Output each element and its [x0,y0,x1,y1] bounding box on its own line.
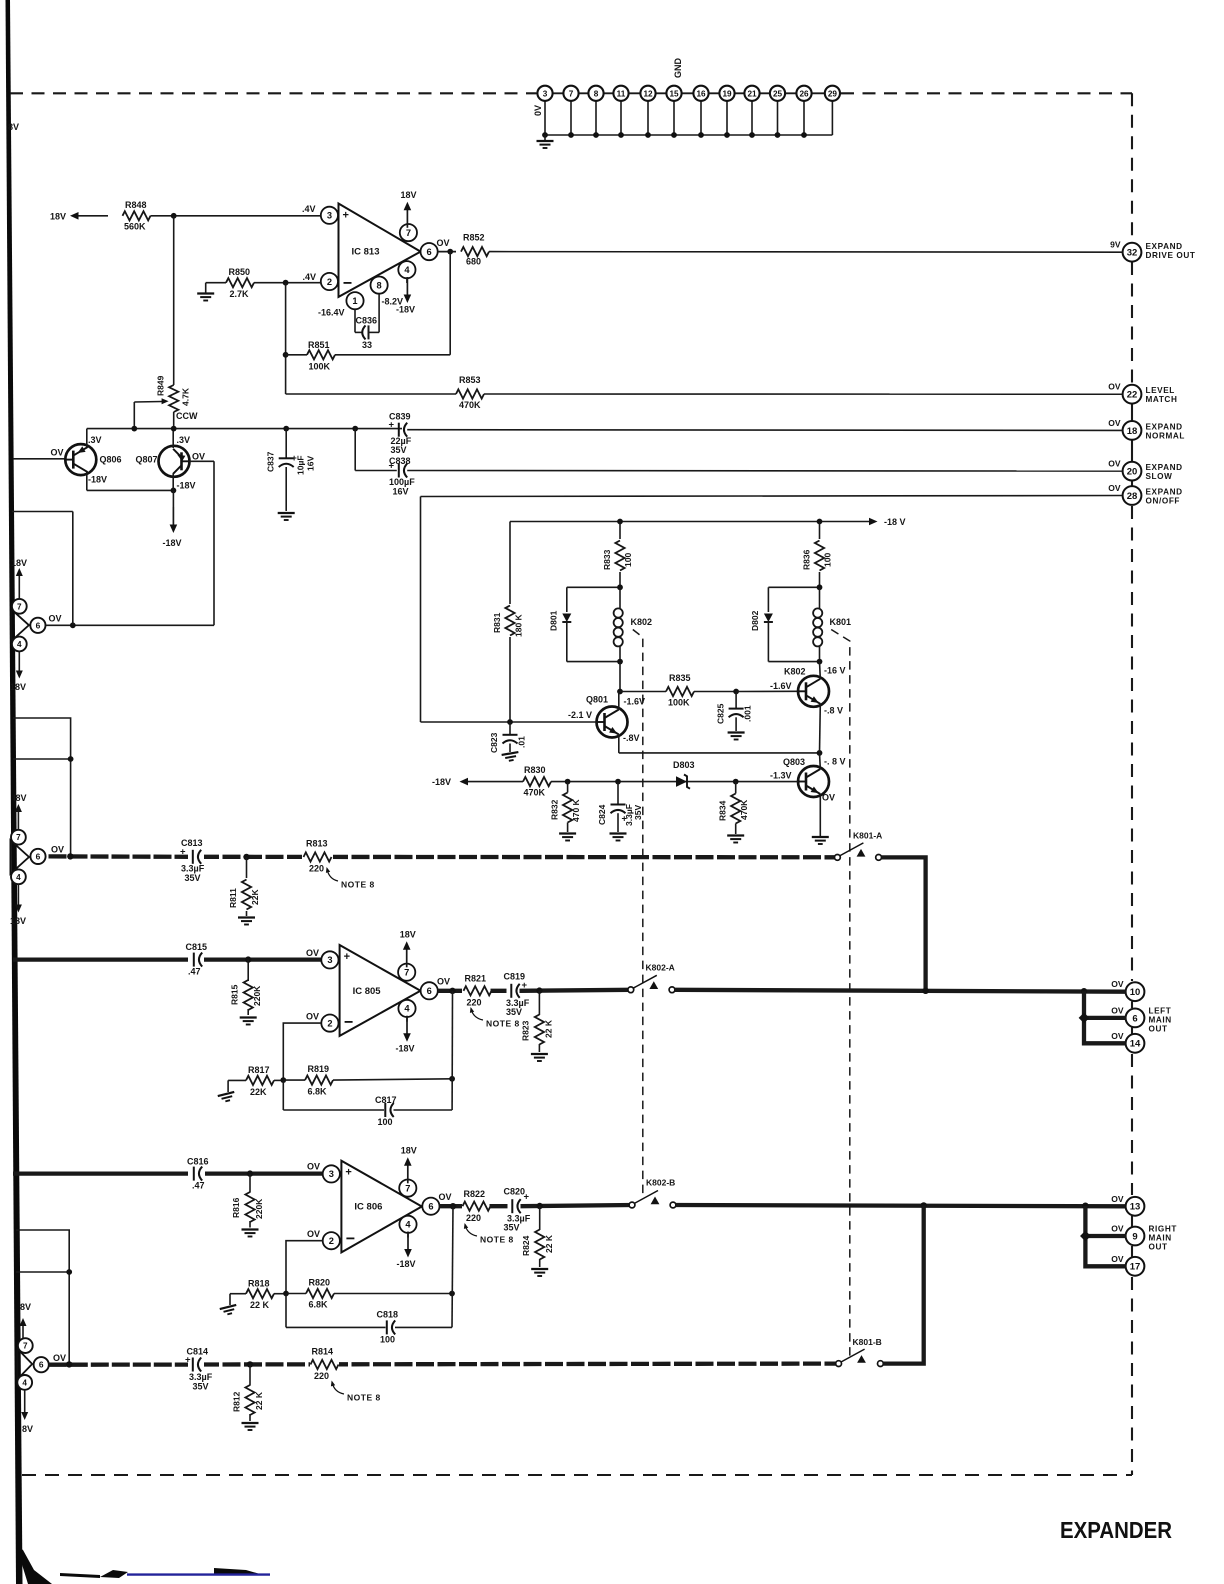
ground for C825 [728,733,745,740]
bold input wire left main [13,957,321,961]
svg-text:18V: 18V [11,558,27,568]
svg-text:+: + [344,951,350,963]
Q807 base wire to 0V node [189,460,215,462]
svg-text:16V: 16V [393,487,409,497]
svg-text:LEVEL: LEVEL [1146,386,1175,395]
svg-text:GND: GND [673,58,683,79]
wire to R853 level match [286,393,456,395]
svg-text:OV: OV [307,1162,320,1172]
pin 6 of IC806 output [422,1198,439,1215]
resistor R848 560K [123,211,151,220]
wire R853 to pin 22 [484,393,1122,395]
bold wire R821 to C819 [491,989,509,993]
note 8 leader for R814 [332,1382,344,1394]
bold wire C819 to contact [520,990,631,991]
ground for R823 [531,1054,548,1061]
resistor R818 22K [230,1293,246,1295]
resistor R852 680 [461,247,489,256]
svg-text:NORMAL: NORMAL [1146,431,1186,440]
18V arrow above triangle 3 [22,1326,24,1338]
pin 12 drop wire [647,101,649,135]
svg-text:18V: 18V [10,682,26,692]
svg-text:9: 9 [1132,1231,1137,1242]
svg-text:R815: R815 [230,984,240,1005]
svg-text:22: 22 [1127,390,1138,401]
svg-text:7: 7 [404,968,409,978]
connector pin 9 [1126,1227,1145,1246]
wire R848 to pin3 of IC813 [151,215,321,217]
svg-text:470 K: 470 K [571,798,581,822]
svg-text:R832: R832 [550,799,560,820]
wire pin6 to junction [46,624,73,626]
svg-text:13: 13 [1130,1202,1141,1213]
svg-text:C820: C820 [504,1187,526,1197]
K802 actuation dashed line [633,630,643,1197]
svg-text:R812: R812 [232,1391,242,1412]
svg-text:OV: OV [1108,418,1121,428]
svg-text:I8V: I8V [13,793,27,803]
svg-text:C837: C837 [266,451,276,472]
svg-text:11: 11 [617,89,626,98]
connector pin 19 [719,86,734,101]
note 8 leader for R822 [465,1225,477,1237]
Q803 emitter to ground [819,794,821,836]
svg-text:8V: 8V [22,1424,33,1434]
pin chain wire [536,92,841,94]
pin 11 drop wire [620,101,622,135]
resistor R831 180K [505,606,514,636]
svg-text:.47: .47 [188,967,201,977]
pin 25 drop wire [777,101,779,135]
capacitor C813 3.3uF 35V [188,849,204,865]
svg-text:100K: 100K [668,698,690,708]
transistor Q807 [159,446,190,477]
svg-text:220: 220 [466,1213,481,1223]
pin 8 of IC813 [371,277,388,294]
svg-text:4: 4 [22,1378,27,1387]
svg-text:26: 26 [799,89,809,98]
svg-text:-18V: -18V [163,538,182,548]
svg-text:+: + [389,460,395,471]
svg-text:OV: OV [51,845,64,855]
svg-text:470K: 470K [459,400,481,410]
svg-text:MATCH: MATCH [1146,395,1178,404]
feedback wire pin2 IC806 [286,1241,323,1294]
svg-text:LEFT: LEFT [1149,1006,1172,1015]
note 8 leader for R821 [471,1009,483,1021]
svg-text:C815: C815 [186,942,208,952]
svg-text:R835: R835 [669,673,691,683]
svg-text:OV: OV [1111,979,1124,989]
svg-text:4: 4 [16,873,21,882]
svg-text:2: 2 [327,277,332,287]
ground for R834 [727,836,744,843]
svg-text:IC 813: IC 813 [352,247,380,258]
Q802 emitter wire [819,704,822,753]
svg-text:+: + [389,419,395,430]
svg-text:180 K: 180 K [514,613,524,637]
connector pin 17 [1126,1257,1145,1276]
svg-text:470K: 470K [524,788,546,798]
svg-text:.4V: .4V [303,272,317,282]
svg-text:IC 805: IC 805 [353,986,382,997]
svg-text:18V: 18V [400,930,416,940]
svg-text:-. 8 V: -. 8 V [824,757,846,767]
bold branch wires to pins 9 and 17 [1085,1206,1126,1267]
svg-text:OV: OV [1108,459,1121,469]
svg-text:4.7K: 4.7K [181,387,191,406]
svg-text:Q806: Q806 [100,455,122,465]
svg-text:6: 6 [428,1202,433,1212]
svg-text:-1.6V: -1.6V [770,681,792,691]
svg-text:R823: R823 [521,1020,531,1041]
pin 1 of IC813 [346,292,363,309]
bold wire contact to pin 13 [676,1205,1126,1206]
pin 21 drop wire [751,101,753,135]
-18V arrow below Q807 [172,490,174,507]
svg-text:OV: OV [822,793,835,803]
svg-text:8: 8 [594,89,599,98]
svg-text:6.8K: 6.8K [308,1086,328,1096]
svg-text:6: 6 [427,247,432,257]
connector pin 15 [666,86,681,101]
resistor R851 100K [286,354,307,356]
svg-text:CCW: CCW [176,411,198,421]
svg-text:Q803: Q803 [783,757,805,767]
svg-text:1: 1 [352,296,357,306]
svg-text:12: 12 [643,89,653,98]
svg-text:NOTE 8: NOTE 8 [480,1235,514,1245]
svg-text:-18V: -18V [397,1259,416,1269]
-18V arrow below triangle 2 [17,884,19,905]
capacitor C819 3.3uF 35V [507,983,523,999]
wire C838 to pin 20 expand slow [407,470,1122,473]
resistor R822 220 [462,1199,490,1214]
svg-text:R813: R813 [306,839,328,849]
capacitor C838 100uF 16V [398,464,400,478]
svg-text:680: 680 [466,257,481,267]
svg-text:R853: R853 [459,375,481,385]
left connector triangle 3 pins 7 6 4 [17,1349,32,1380]
resistor R823 22K [538,991,540,1015]
svg-text:0V: 0V [533,105,543,116]
feedback vertical from output IC805 [451,991,453,1110]
resistor R853 470K [456,389,484,398]
pin 19 drop wire [726,101,728,135]
svg-text:18V: 18V [401,190,417,200]
svg-text:4: 4 [405,1220,411,1230]
svg-text:R817: R817 [248,1065,270,1075]
svg-text:OV: OV [49,614,62,624]
pin 4 of IC806 with -18V [399,1216,416,1233]
ground for C824 [610,834,627,841]
svg-text:100: 100 [823,553,833,567]
stub rectangle upper [13,718,71,856]
transistor Q802 [798,676,829,707]
resistor R821 220 [462,983,490,998]
connector pin 32 [1123,243,1142,262]
relay contact K801-B [841,1349,865,1362]
svg-text:-8.2V: -8.2V [382,297,404,307]
stub wire upper left [12,511,73,513]
svg-text:K801-B: K801-B [853,1337,882,1347]
connector pin 22 [1123,385,1142,404]
svg-text:MAIN: MAIN [1149,1234,1172,1243]
pin 7 of IC813 with 18V [407,224,409,233]
svg-text:100µF: 100µF [389,477,415,487]
svg-text:.01: .01 [517,736,527,748]
bold branch wires to pins 6 and 14 [1084,991,1126,1043]
svg-text:EXPAND: EXPAND [1146,488,1183,497]
left connector triangle 1 pins 7 6 4 [11,609,29,641]
svg-text:R814: R814 [312,1347,334,1357]
feedback vertical wire [285,283,287,394]
svg-text:D801: D801 [549,610,559,631]
resistor R833 100 [619,522,621,540]
svg-text:35V: 35V [391,445,407,455]
svg-text:35V: 35V [504,1223,520,1233]
svg-text:OUT: OUT [1149,1024,1168,1033]
relay coil K801 [817,584,823,590]
svg-text:4: 4 [404,1004,410,1014]
connector pin 25 [770,86,785,101]
note 8 leader for R813 [327,869,338,881]
svg-text:R851: R851 [308,340,330,350]
svg-text:C818: C818 [377,1310,399,1320]
capacitor C820 3.3uF 35V [508,1199,524,1215]
svg-text:4: 4 [404,265,410,275]
svg-text:R849: R849 [156,375,166,396]
connector pin 26 [796,86,811,101]
svg-text:R833: R833 [602,549,612,570]
svg-text:35V: 35V [506,1007,522,1017]
svg-text:7: 7 [405,1183,410,1193]
svg-text:8V: 8V [8,122,19,132]
svg-text:R818: R818 [248,1279,270,1289]
diode D802 [768,586,819,588]
svg-text:EXPAND: EXPAND [1146,422,1183,431]
resistor R830 470K [523,777,551,786]
connector pin 13 [1126,1197,1145,1216]
svg-text:OV: OV [192,452,205,462]
svg-text:22 K: 22 K [544,1234,554,1253]
svg-text:.4V: .4V [302,204,316,214]
svg-text:NOTE 8: NOTE 8 [486,1019,520,1029]
connector pin 6 [1126,1009,1145,1028]
svg-text:IC 806: IC 806 [354,1202,382,1213]
connector pin 7 [563,86,578,101]
svg-text:3: 3 [327,211,332,221]
svg-text:7: 7 [569,89,574,98]
svg-text:K801-A: K801-A [853,831,882,841]
resistor R819 6.8K [283,1079,305,1081]
resistor R814 220 [310,1357,339,1373]
pin 7 of IC805 with 18V [406,964,408,973]
svg-text:6: 6 [1132,1013,1137,1024]
svg-text:Q801: Q801 [586,695,608,705]
op-amp IC813 [339,204,421,297]
ground for C837 [278,513,295,520]
svg-text:7: 7 [23,1342,28,1351]
connector pin 10 [1126,982,1145,1001]
scan page edge line [6,0,23,1584]
svg-text:D803: D803 [673,760,695,770]
connector pin 20 [1123,462,1142,481]
18V arrow above triangle 2 [17,812,19,830]
svg-text:6.8K: 6.8K [309,1300,329,1310]
svg-text:+: + [185,1355,191,1366]
bold wire K801-B up to right main line [883,1205,923,1363]
pin 15 drop wire [673,101,675,135]
svg-text:EXPAND: EXPAND [1146,242,1183,251]
resistor R835 100K [620,691,666,693]
svg-text:6: 6 [427,986,432,996]
svg-text:100: 100 [378,1117,393,1127]
svg-text:220: 220 [467,997,482,1007]
svg-text:R824: R824 [521,1235,531,1256]
bold wire R822 to C820 [490,1204,510,1208]
relay contact K802-B [634,1191,658,1204]
svg-text:100: 100 [623,553,633,567]
svg-text:R830: R830 [524,765,546,775]
svg-text:C824: C824 [597,804,607,825]
svg-text:Q807: Q807 [136,455,158,465]
-18V arrow below triangle 1 [18,652,20,672]
svg-text:-18V: -18V [432,777,451,787]
pin 2 of IC805 [321,1015,338,1032]
bottom border dashed [22,1474,1132,1476]
svg-text:3.3µF: 3.3µF [181,864,205,874]
svg-text:3.3µF: 3.3µF [189,1372,213,1382]
ground for R824 [531,1269,548,1276]
resistor R811 22K [246,857,248,878]
svg-text:-18V: -18V [396,1043,415,1053]
svg-text:K802: K802 [631,617,653,627]
resistor R812 22K [249,1364,251,1385]
svg-text:22 K: 22 K [544,1019,554,1038]
Q801 collector wire [618,692,620,710]
svg-text:C823: C823 [489,732,499,753]
wire 0V into Q806 base [13,458,66,460]
capacitor C823 .01 [509,722,511,735]
pin 6 of IC813 output [421,243,438,260]
svg-text:R819: R819 [308,1064,330,1074]
svg-text:6: 6 [36,851,41,861]
wire R850 to pin 2 [254,282,321,284]
ground for R832 [559,834,576,841]
svg-text:OV: OV [437,238,450,248]
svg-text:OV: OV [51,448,64,458]
svg-text:22K: 22K [250,1087,267,1097]
blue pen line [127,1573,270,1575]
connector pin 18 [1123,421,1142,440]
resistor R813 220 [302,849,333,864]
Q801 emitter wire [618,735,620,753]
svg-text:16V: 16V [306,456,316,471]
svg-text:22 K: 22 K [250,1300,270,1310]
svg-text:18V: 18V [50,211,66,221]
svg-text:OUT: OUT [1149,1243,1168,1252]
svg-text:28: 28 [1127,491,1138,502]
gnd pins bus wire [544,101,546,135]
bias bus wire [87,428,402,430]
capacitor C836 33 [354,310,356,333]
svg-text:2: 2 [329,1236,334,1246]
svg-text:18V: 18V [10,916,26,926]
pin 16 drop wire [700,101,702,135]
wire pin 28 expand on/off [421,496,1123,497]
connector pin 29 [825,86,840,101]
ground for R812 [242,1423,259,1430]
svg-text:6: 6 [39,1360,44,1370]
ground at pin 3 bus [544,135,546,141]
transistor Q803 [798,766,829,797]
pin 3 of IC805 [321,951,338,968]
svg-text:7: 7 [406,228,411,238]
svg-text:ON/OFF: ON/OFF [1146,497,1181,506]
resistor R832 470K [563,793,572,823]
svg-text:33: 33 [362,340,372,350]
svg-text:220K: 220K [252,985,262,1006]
bold input wire right main [13,1171,322,1175]
svg-text:OV: OV [1111,1031,1124,1041]
ground for R815 [240,1018,257,1025]
svg-text:R836: R836 [802,549,812,570]
svg-text:EXPANDER: EXPANDER [1060,1517,1172,1543]
capacitor C816 .47 [188,1164,205,1183]
pin 29 drop wire [831,101,833,135]
capacitor C825 .001 [735,692,737,709]
Q807 emitter wire [172,474,174,491]
connector pin 16 [693,86,708,101]
svg-text:-.8V: -.8V [623,733,640,743]
pin 4 of IC805 with -18V [398,1000,415,1017]
svg-text:18: 18 [1127,426,1138,437]
wire down to relay driver [420,497,422,723]
ground for R816 [242,1230,259,1237]
svg-text:7: 7 [17,602,22,611]
svg-text:3: 3 [543,89,548,98]
svg-text:C816: C816 [187,1157,209,1167]
svg-text:2: 2 [327,1018,332,1028]
feedback wire pin2 IC805 [283,1023,321,1080]
svg-text:.3V: .3V [88,435,102,445]
svg-text:D802: D802 [750,610,760,631]
svg-text:100: 100 [380,1335,395,1345]
svg-text:220: 220 [309,864,324,874]
svg-text:NOTE 8: NOTE 8 [341,880,375,890]
svg-text:29: 29 [828,89,838,98]
svg-text:21: 21 [747,89,757,98]
resistor R850 2.7K [206,282,226,284]
bold signal wire line A [49,854,191,859]
connector pin 21 [744,86,759,101]
feedback vertical from output IC806 [452,1206,453,1327]
svg-text:22 K: 22 K [254,1391,264,1410]
Q806 emitter wire down [86,472,88,491]
svg-text:9V: 9V [1110,240,1121,250]
connector pin 28 [1123,486,1142,505]
resistor R834 470K [731,794,740,824]
svg-text:OV: OV [307,1229,320,1239]
svg-text:OV: OV [306,1012,319,1022]
svg-text:-1.3V: -1.3V [770,771,792,781]
svg-text:18V: 18V [401,1146,417,1156]
bold wire C820 to contact [521,1205,633,1206]
svg-text:R831: R831 [492,612,502,633]
svg-text:OV: OV [1108,483,1121,493]
svg-text:R811: R811 [228,888,238,908]
